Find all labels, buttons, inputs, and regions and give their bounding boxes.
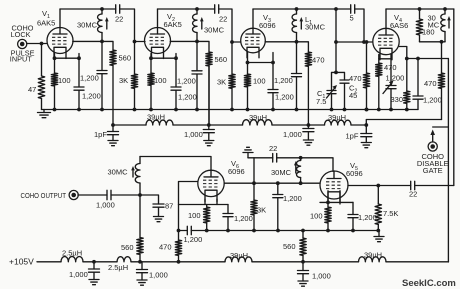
svg-text:39µH: 39µH	[364, 251, 382, 260]
node L1 tap	[295, 7, 299, 11]
wire V6 cathode line	[179, 204, 229, 206]
node V3 screen	[295, 40, 299, 44]
node V1 grid / 47 ohm tap	[40, 42, 44, 46]
svg-text:100: 100	[154, 76, 167, 85]
tube V4 6AS6	[373, 28, 399, 54]
svg-text:1,200: 1,200	[358, 213, 377, 222]
wire V5 screen line to gate	[348, 185, 411, 187]
wire coil to V2 screen node	[196, 33, 198, 41]
svg-text:6AK5: 6AK5	[164, 20, 182, 29]
capacitor 1,200 (V4 screen bypass)	[417, 59, 419, 97]
inductor 39uH (3)	[325, 120, 352, 125]
wire V3 screen	[265, 41, 296, 43]
wire choke line step to gate	[366, 120, 441, 126]
svg-text:1,000: 1,000	[312, 272, 331, 281]
node V6 plate feed	[138, 193, 142, 197]
inductor 2.5uH (2)	[117, 257, 131, 262]
node 7.5K tap	[376, 184, 380, 188]
wire bus A to V2 grid	[120, 9, 135, 42]
resistor 560 (bottom feed)	[302, 231, 304, 239]
svg-text:6AS6: 6AS6	[390, 21, 408, 30]
wire V4 grid line	[336, 41, 373, 43]
wire coil to V3 screen node	[296, 33, 298, 42]
resistor 3K (V2 grid leak)	[134, 42, 136, 75]
tube V6 6096	[198, 170, 224, 196]
wire V1 screen to node	[73, 40, 102, 42]
V5 cathode network	[327, 191, 329, 203]
resistor 3K (bottom)	[253, 183, 255, 200]
inductor L1 30MC (V3 plate coil)	[296, 9, 298, 14]
wire top bus segment B (V2 plate)	[158, 8, 215, 10]
capacitor 1,000 (bypass at V3)	[307, 123, 311, 127]
svg-text:87: 87	[165, 202, 173, 211]
svg-text:1,200: 1,200	[386, 74, 405, 83]
svg-text:1pF: 1pF	[94, 130, 107, 139]
svg-text:1,200: 1,200	[234, 214, 253, 223]
capacitor 1,200 (V5 cathode bypass)	[352, 202, 354, 214]
capacitor 1pF (bypass right)	[365, 125, 367, 134]
svg-text:GATE: GATE	[423, 166, 443, 175]
svg-text:5: 5	[350, 14, 354, 23]
svg-text:560: 560	[283, 242, 296, 251]
tube V5 6096	[320, 171, 348, 199]
svg-text:2.5µH: 2.5µH	[108, 263, 128, 272]
node V1 screen	[100, 40, 104, 44]
svg-text:+105V: +105V	[9, 257, 34, 267]
bottom cathode bus with series capacitor 1,200	[177, 229, 181, 233]
svg-text:30MC: 30MC	[108, 168, 129, 177]
node 3K tap	[252, 181, 256, 185]
svg-text:39µH: 39µH	[147, 113, 165, 122]
resistor 560 (V2 screen dropping)	[197, 41, 209, 52]
svg-text:100: 100	[188, 211, 201, 220]
svg-text:30MC: 30MC	[77, 21, 98, 30]
resistor 7.5K	[377, 186, 379, 205]
resistor 100 (V6 cathode)	[206, 205, 208, 208]
capacitor 1,200 (V2 cathode bypass)	[175, 58, 177, 87]
node V4 plate network	[440, 40, 444, 44]
capacitor 1,200 (V6 cathode bypass)	[227, 205, 229, 214]
resistor 470 (V6 grid branch)	[175, 240, 181, 256]
svg-text:1,000: 1,000	[96, 201, 115, 210]
resistor 560 (V1 screen dropping)	[102, 41, 113, 50]
svg-text:330: 330	[391, 95, 404, 104]
svg-text:3K: 3K	[119, 76, 128, 85]
svg-text:1,000: 1,000	[69, 270, 88, 279]
wire V6 cathode leg left	[204, 199, 206, 205]
wire right edge outer (bus D drop)	[453, 9, 455, 186]
terminal COHO OUTPUT	[69, 190, 78, 199]
svg-text:1,200: 1,200	[275, 93, 294, 102]
inductor 30MC (V6 plate)	[139, 157, 141, 164]
inductor 39uH (bottom 1)	[225, 257, 252, 262]
svg-text:COHO OUTPUT: COHO OUTPUT	[21, 191, 67, 200]
capacitor 1,200 (V3 cathode bypass)	[272, 63, 274, 90]
svg-text:7.5K: 7.5K	[383, 209, 398, 218]
svg-text:100: 100	[310, 212, 323, 221]
svg-text:INPUT: INPUT	[10, 55, 32, 64]
wire input to V1 grid	[27, 43, 47, 45]
capacitor 1,000 (bypass at V2)	[207, 123, 211, 127]
wire V4 screen drop	[447, 59, 449, 263]
wire bus C to V4 grid	[355, 9, 364, 42]
wire choke line	[351, 124, 366, 126]
wire 180/coil join	[420, 41, 446, 43]
wire V1 plate riser	[59, 9, 61, 28]
wire V3 cathode line	[248, 53, 274, 63]
svg-text:100: 100	[253, 77, 266, 86]
node V4 screen	[405, 57, 409, 61]
svg-text:560: 560	[119, 54, 132, 63]
svg-text:22: 22	[409, 190, 417, 199]
input terminal COHO LOCK PULSE INPUT	[18, 39, 27, 48]
svg-text:1,200: 1,200	[82, 92, 101, 101]
trimmer network C1 C2 riser	[334, 7, 338, 11]
svg-text:3K: 3K	[217, 78, 226, 87]
svg-text:6096: 6096	[228, 167, 245, 176]
wire V6 grid line	[179, 182, 198, 241]
capacitor 1pF (bypass)	[111, 123, 115, 127]
svg-text:1,200: 1,200	[184, 235, 203, 244]
svg-text:470: 470	[312, 56, 325, 65]
svg-text:1,200: 1,200	[283, 194, 302, 203]
svg-text:560: 560	[215, 55, 228, 64]
inductor 39uH (bottom 2)	[359, 257, 387, 262]
capacitor 1,000 (supply bypass 2)	[140, 262, 142, 270]
node V2 grid	[133, 40, 137, 44]
node C1C2 top	[334, 40, 338, 44]
svg-text:45: 45	[349, 91, 357, 100]
wire choke line	[173, 124, 243, 126]
svg-text:560: 560	[121, 243, 134, 252]
svg-text:470: 470	[384, 63, 397, 72]
capacitor 1,200 (V1 screen bypass)	[101, 41, 103, 70]
inductor 30MC (V2 plate coil)	[196, 9, 198, 14]
svg-text:7.5: 7.5	[316, 97, 326, 106]
wire gate stub	[433, 126, 449, 128]
inductor 39uH (2)	[243, 120, 273, 125]
wire V4 screen line	[399, 47, 448, 59]
wire V2 cathode line	[151, 54, 176, 59]
wire V6 plate line	[140, 157, 211, 171]
resistor 3K (V3 grid leak)	[231, 42, 233, 74]
capacitor 22 (coupling V1-V2)	[116, 5, 120, 14]
svg-text:1,000: 1,000	[149, 271, 168, 280]
svg-text:2.5µH: 2.5µH	[62, 249, 82, 258]
capacitor 5 (coupling V3-V4)	[351, 5, 355, 14]
svg-text:6AK5: 6AK5	[37, 19, 55, 28]
resistor 470 (V4 cathode)	[378, 59, 380, 63]
ground bus	[42, 109, 419, 111]
capacitor 22 (gate coupling)	[411, 181, 415, 190]
svg-text:30MC: 30MC	[271, 168, 292, 177]
svg-text:6096: 6096	[346, 169, 363, 178]
node 30MC coil tap	[195, 7, 199, 11]
wire top bus segment D (V4 plate)	[386, 8, 454, 10]
wire choke line	[272, 124, 325, 126]
wire top bus segment C (V3 plate)	[253, 8, 351, 10]
wire bus B to V3 grid	[219, 9, 232, 42]
resistor 330 (V4 screen bypass R)	[406, 59, 408, 92]
svg-text:LOCK: LOCK	[11, 30, 31, 39]
svg-text:39µH: 39µH	[230, 251, 248, 260]
svg-text:1,000: 1,000	[184, 130, 203, 139]
ground (above plate line)	[243, 147, 253, 152]
svg-text:1pF: 1pF	[346, 132, 359, 141]
svg-text:39µH: 39µH	[328, 113, 346, 122]
capacitor 1,200 (V1 cathode bypass)	[78, 58, 80, 87]
node V2 screen	[195, 40, 199, 44]
wire V6 cathode leg right	[216, 199, 218, 205]
svg-text:22: 22	[219, 15, 227, 24]
svg-text:47: 47	[28, 85, 36, 94]
svg-text:1,000: 1,000	[283, 130, 302, 139]
capacitor C1 7.5 variable	[332, 72, 337, 90]
capacitor 1,200 (V2 screen bypass)	[196, 41, 198, 70]
capacitor 1,200 variable (V4 cathode)	[390, 59, 392, 86]
wire V4 plate riser	[385, 9, 387, 28]
svg-text:1,200: 1,200	[423, 96, 442, 105]
capacitor 22 (coupling V2-V3)	[215, 5, 219, 14]
wire V5 plate line with capacitor 22	[253, 158, 255, 183]
wire into V3 grid	[232, 41, 241, 43]
wire bottom to right edge	[386, 261, 448, 263]
svg-text:1,200: 1,200	[274, 76, 293, 85]
inductor 30MC (V4)	[444, 9, 446, 14]
svg-text:22: 22	[115, 15, 123, 24]
inductor 2.5uH (1)	[61, 256, 83, 261]
wire V4 cathode line	[379, 55, 391, 59]
terminal COHO DISABLE GATE	[428, 142, 437, 151]
resistor 100 (V3 cathode)	[247, 63, 249, 75]
wire coil to screen node	[101, 33, 103, 41]
svg-text:MC: MC	[428, 21, 440, 30]
svg-text:470: 470	[424, 79, 437, 88]
capacitor C2 45	[336, 72, 345, 80]
resistor 100 (V1 cathode)	[54, 58, 56, 73]
capacitor 1,200 (V5 grid)	[276, 181, 280, 185]
wire to output terminal	[78, 194, 107, 196]
node 30MC coil tap on bus A	[100, 7, 104, 11]
resistor 470 (V4 right)	[441, 42, 443, 73]
inductor 30MC (V1 plate coil)	[101, 9, 103, 14]
wire to right edge	[415, 185, 454, 187]
svg-text:1,200: 1,200	[178, 93, 197, 102]
capacitor 1,000 (supply bypass 3)	[302, 262, 304, 271]
tube V1 6AK5	[47, 28, 73, 54]
capacitor 1,000 (supply bypass 1)	[93, 262, 95, 269]
svg-text:SeekIC.com: SeekIC.com	[402, 278, 456, 289]
tube V3 6096	[241, 28, 266, 53]
B+ choke line	[113, 124, 146, 126]
svg-text:22: 22	[269, 144, 277, 153]
svg-text:100: 100	[58, 76, 71, 85]
node V4 grid	[362, 40, 366, 44]
wire V6 screen to V5 grid line	[224, 182, 320, 184]
capacitor 1,000 (output coupling)	[111, 194, 140, 196]
wire into V2 grid	[135, 41, 146, 43]
ground (main bus)	[43, 110, 45, 113]
arrow to gate stub	[432, 134, 434, 142]
resistor 560 (V6 plate feed)	[139, 195, 141, 238]
svg-text:3K: 3K	[257, 206, 266, 215]
capacitor 87 (plate to ground)	[140, 195, 159, 204]
resistor 470 (V3 screen feed)	[297, 42, 309, 52]
inductor 39uH (1)	[146, 120, 173, 125]
wire V3 plate riser	[252, 9, 254, 28]
svg-text:39µH: 39µH	[249, 113, 267, 122]
svg-text:30MC: 30MC	[204, 26, 225, 35]
resistor 470 (V4 grid leak)	[366, 42, 368, 73]
inductor 30MC (V5)	[299, 156, 303, 160]
svg-text:6096: 6096	[259, 21, 276, 30]
wire V1 cathode line	[55, 54, 80, 59]
wire V2 screen	[170, 40, 197, 42]
ground (bottom bus)	[378, 231, 380, 237]
svg-text:30MC: 30MC	[305, 23, 326, 32]
svg-text:470: 470	[349, 74, 362, 83]
node V3 grid	[230, 40, 234, 44]
wire V2 plate riser	[157, 9, 159, 28]
tube V2 6AK5	[145, 28, 171, 54]
resistor 100 (V5 cathode)	[327, 202, 329, 207]
svg-text:470: 470	[159, 243, 172, 252]
resistor 100 (V2 cathode)	[150, 58, 152, 73]
resistor 180 (V4 plate load)	[419, 9, 421, 19]
wire top bus segment A (V1 plate)	[60, 8, 116, 10]
svg-text:1,200: 1,200	[80, 74, 99, 83]
capacitor 1,200 (V3 screen bypass)	[296, 42, 298, 74]
svg-text:1,200: 1,200	[177, 77, 196, 86]
resistor 47 (input grid leak)	[41, 44, 43, 77]
